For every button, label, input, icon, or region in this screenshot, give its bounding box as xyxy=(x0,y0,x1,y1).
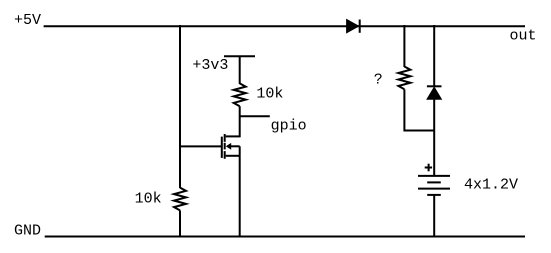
resistor R2 10k (lower left) xyxy=(174,188,186,211)
wire right branch A from +5V rail to resistor R3 xyxy=(403,25,405,67)
wire Q1 source to GND rail xyxy=(239,156,241,237)
wire right branch B from +5V rail to diode D2 xyxy=(433,25,435,87)
svg-text:10k: 10k xyxy=(256,86,283,103)
wire from R1 down past gpio node to MOSFET drain xyxy=(239,106,241,137)
wire gpio stub xyxy=(240,115,270,117)
svg-text:+5V: +5V xyxy=(14,12,41,29)
diode D1 (series diode on +5V rail) xyxy=(347,20,360,33)
svg-text:out: out xyxy=(510,27,537,44)
wire from R3 down to join xyxy=(403,89,405,131)
diode D2 (cathode up, to battery) xyxy=(427,86,442,99)
svg-text:4x1.2V: 4x1.2V xyxy=(464,176,518,193)
svg-text:GND: GND xyxy=(14,223,41,240)
svg-text:?: ? xyxy=(374,72,383,89)
wire left vertical from +5V rail to resistor R2 xyxy=(179,25,181,188)
wire gate lead from left vertical to Q1 xyxy=(180,145,222,147)
resistor R1 10k (pull-up from +3v3) xyxy=(234,83,246,106)
svg-text:10k: 10k xyxy=(135,190,162,207)
wire top +5V rail xyxy=(44,25,525,27)
wire battery negative to GND rail xyxy=(433,195,435,237)
battery BT1 xyxy=(418,176,450,195)
label + (battery positive) xyxy=(425,164,432,172)
wire from R2 to GND rail xyxy=(179,210,181,236)
wire from +3v3 tap down to resistor R1 xyxy=(239,56,241,84)
wire join between branch A and branch B xyxy=(404,130,434,132)
svg-text:+3v3: +3v3 xyxy=(192,57,228,74)
power +3v3 tap xyxy=(224,55,255,57)
wire from D2 anode down through join to battery xyxy=(433,99,435,176)
resistor R3 ? xyxy=(398,67,410,90)
wire bottom GND rail xyxy=(45,236,525,238)
transistor Q1 (NMOS) xyxy=(222,134,240,159)
svg-text:gpio: gpio xyxy=(271,118,307,135)
